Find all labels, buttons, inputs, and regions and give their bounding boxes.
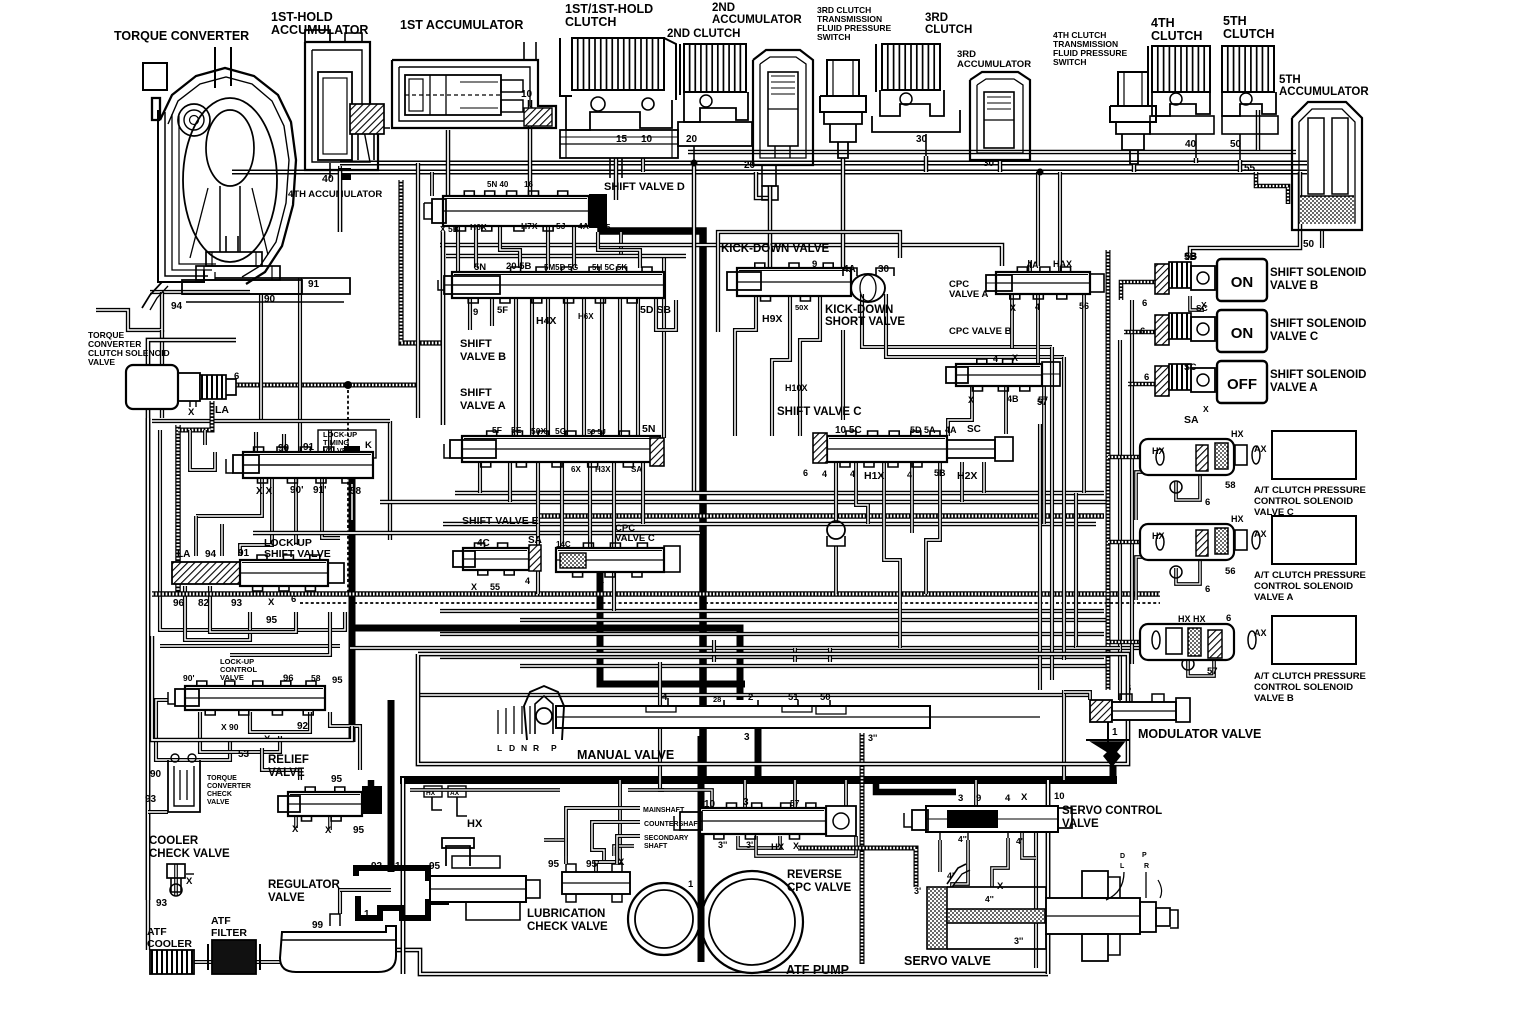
svg-text:L: L xyxy=(1120,863,1125,870)
oil pan strainer xyxy=(280,914,396,972)
svg-text:3: 3 xyxy=(958,793,963,804)
wire 20 drop xyxy=(756,172,778,200)
svg-text:4B: 4B xyxy=(1007,394,1019,404)
svg-text:28: 28 xyxy=(713,695,721,704)
svg-text:H6X: H6X xyxy=(470,222,487,232)
svg-text:2ND: 2ND xyxy=(712,2,735,14)
wire la line xyxy=(175,425,181,592)
svg-text:AX: AX xyxy=(1254,529,1267,539)
svg-text:SHIFT SOLENOID: SHIFT SOLENOID xyxy=(1270,267,1366,279)
wire lockup inner box xyxy=(160,430,352,630)
svg-text:SECONDARY: SECONDARY xyxy=(644,835,689,842)
wire solenoid feeds xyxy=(1121,282,1204,384)
ATF pump xyxy=(628,862,849,977)
svg-text:OFF: OFF xyxy=(1227,376,1257,393)
svg-text:ATF: ATF xyxy=(211,915,231,927)
svg-text:3'': 3'' xyxy=(1014,936,1023,946)
svg-text:30: 30 xyxy=(983,158,995,169)
svg-text:5N 40: 5N 40 xyxy=(487,180,509,189)
svg-text:REVERSE: REVERSE xyxy=(787,869,842,881)
wire verticals 401/418 xyxy=(418,163,432,418)
svg-text:4TH ACCUMULATOR: 4TH ACCUMULATOR xyxy=(288,189,382,200)
wire run 666 xyxy=(520,664,1110,668)
svg-text:1: 1 xyxy=(599,575,604,585)
torque converter check valve xyxy=(145,754,251,812)
svg-text:L: L xyxy=(497,743,502,753)
CPC valve C xyxy=(556,523,680,585)
svg-text:10: 10 xyxy=(521,89,533,100)
svg-text:SERVO VALVE: SERVO VALVE xyxy=(904,954,991,968)
svg-text:2ND CLUTCH: 2ND CLUTCH xyxy=(667,28,740,40)
svg-text:1: 1 xyxy=(688,879,694,890)
svg-text:SHIFT VALVE: SHIFT VALVE xyxy=(264,548,331,560)
svg-text:HX: HX xyxy=(1152,531,1165,541)
svg-text:57: 57 xyxy=(1037,397,1048,408)
wire main line 1 vertical xyxy=(601,210,703,780)
svg-text:20: 20 xyxy=(744,160,756,171)
frame bottom box xyxy=(403,778,1048,974)
shift valve B xyxy=(438,261,671,412)
svg-text:COOLER: COOLER xyxy=(149,835,199,847)
wire lockup shift out xyxy=(160,586,340,655)
svg-text:SWITCH: SWITCH xyxy=(817,32,851,42)
shaft feed lines xyxy=(566,807,703,864)
svg-text:VALVE: VALVE xyxy=(1062,818,1099,830)
svg-text:40: 40 xyxy=(322,173,334,185)
svg-text:5G: 5G xyxy=(555,426,567,436)
svg-text:CONTROL SOLENOID: CONTROL SOLENOID xyxy=(1254,581,1353,592)
shift solenoid valve B xyxy=(1142,251,1366,310)
svg-text:X: X xyxy=(968,395,974,405)
A/T clutch pressure control solenoid valve C xyxy=(1140,429,1366,518)
svg-text:6: 6 xyxy=(1142,298,1147,309)
svg-text:X: X xyxy=(1203,404,1209,414)
svg-text:10: 10 xyxy=(641,134,653,145)
lubrication check valve xyxy=(527,857,630,933)
wire drop 664 xyxy=(621,232,664,438)
svg-text:5D 5A: 5D 5A xyxy=(910,425,936,435)
svg-text:CHECK VALVE: CHECK VALVE xyxy=(527,921,608,933)
svg-text:4'': 4'' xyxy=(985,894,994,904)
svg-text:93: 93 xyxy=(145,794,157,805)
wire thick lockup branch xyxy=(344,446,700,742)
wire run 648 xyxy=(350,646,1160,650)
svg-text:4: 4 xyxy=(822,469,827,479)
wire kickdown verticals xyxy=(735,294,1064,436)
svg-text:HX: HX xyxy=(771,842,785,853)
4th clutch transmission fluid pressure switch xyxy=(1053,30,1156,164)
svg-text:91': 91' xyxy=(313,485,327,496)
svg-text:1: 1 xyxy=(1112,727,1118,738)
svg-text:5F: 5F xyxy=(497,305,508,316)
svg-text:REGULATOR: REGULATOR xyxy=(268,879,340,891)
svg-text:SC: SC xyxy=(1184,362,1197,372)
svg-text:90: 90 xyxy=(264,294,276,305)
svg-text:6: 6 xyxy=(1144,372,1149,383)
svg-text:VALVE B: VALVE B xyxy=(460,351,506,363)
lock-up timing valve xyxy=(226,430,376,497)
svg-text:90': 90' xyxy=(183,673,194,683)
servo control valve xyxy=(904,791,1162,846)
svg-text:5D SB: 5D SB xyxy=(640,304,671,316)
ATF filter xyxy=(208,915,260,974)
svg-text:5J: 5J xyxy=(556,221,566,231)
wire run 502 xyxy=(380,500,1110,505)
wire servo plumb xyxy=(798,780,1036,887)
wire run 524 xyxy=(443,522,1096,527)
svg-text:VALVE A: VALVE A xyxy=(949,289,989,300)
svg-text:4A: 4A xyxy=(578,221,589,231)
svg-text:10: 10 xyxy=(1054,791,1065,802)
svg-text:X: X xyxy=(292,824,299,835)
svg-text:3: 3 xyxy=(743,797,749,808)
torque converter xyxy=(114,29,350,310)
svg-text:CONTROL SOLENOID: CONTROL SOLENOID xyxy=(1254,496,1353,507)
wire hatched 516 xyxy=(540,513,1104,519)
svg-text:50X: 50X xyxy=(795,303,808,312)
svg-text:ATF: ATF xyxy=(147,926,167,938)
wire right bundle xyxy=(1038,172,1132,700)
svg-text:50: 50 xyxy=(1303,239,1315,250)
svg-text:95: 95 xyxy=(266,615,278,626)
wire lockup control plumb xyxy=(156,700,360,770)
shift valve A xyxy=(444,423,664,474)
node 40 / 4th accumulator label xyxy=(288,166,382,200)
svg-text:K: K xyxy=(365,440,372,451)
svg-text:H4X: H4X xyxy=(536,315,556,327)
svg-text:SHIFT: SHIFT xyxy=(460,387,492,399)
svg-text:A/T CLUTCH PRESSURE: A/T CLUTCH PRESSURE xyxy=(1254,485,1366,496)
svg-text:3'': 3'' xyxy=(718,840,727,850)
svg-text:H1X: H1X xyxy=(864,470,884,482)
1st-hold accumulator xyxy=(271,10,390,170)
svg-text:3: 3 xyxy=(744,732,750,743)
svg-text:AX: AX xyxy=(1254,628,1267,638)
svg-text:4: 4 xyxy=(993,354,998,364)
wire thick port2 branch xyxy=(700,628,740,700)
svg-text:6: 6 xyxy=(1140,326,1145,337)
wire 3pp hatched xyxy=(862,733,1036,968)
3rd clutch xyxy=(872,12,972,156)
svg-text:4: 4 xyxy=(662,692,668,703)
svg-text:CLUTCH: CLUTCH xyxy=(1151,29,1202,43)
A/T clutch pressure control solenoid valve A xyxy=(1140,514,1366,603)
svg-text:90': 90' xyxy=(290,485,304,496)
modulator valve xyxy=(1086,694,1261,766)
svg-text:94: 94 xyxy=(171,301,183,312)
shift solenoid valve A xyxy=(1037,361,1366,426)
wire run 493 xyxy=(455,491,1104,496)
svg-text:6: 6 xyxy=(291,594,296,605)
svg-text:96: 96 xyxy=(173,598,185,609)
3rd accumulator xyxy=(957,49,1031,169)
svg-text:1ST-HOLD: 1ST-HOLD xyxy=(271,10,333,24)
svg-text:4: 4 xyxy=(1035,302,1040,312)
svg-text:RELIEF: RELIEF xyxy=(268,754,309,766)
svg-text:VALVE B: VALVE B xyxy=(1270,280,1318,292)
svg-text:X: X xyxy=(268,597,275,608)
svg-text:4: 4 xyxy=(850,469,855,479)
svg-text:VALVE: VALVE xyxy=(268,892,305,904)
wire bus 172 xyxy=(232,170,1307,175)
svg-text:SHIFT VALVE D: SHIFT VALVE D xyxy=(604,181,685,193)
wire bus 152 xyxy=(688,150,1296,155)
svg-text:95': 95' xyxy=(586,859,600,870)
wire drop 4th switch xyxy=(1132,164,1137,172)
svg-text:56: 56 xyxy=(1079,301,1089,311)
lock-up shift valve xyxy=(172,537,344,626)
svg-text:6X: 6X xyxy=(571,465,581,474)
svg-text:16: 16 xyxy=(524,180,533,189)
svg-text:SHIFT: SHIFT xyxy=(460,338,492,350)
svg-text:90: 90 xyxy=(150,769,162,780)
ATF cooler xyxy=(147,926,194,974)
svg-text:KICK-DOWN: KICK-DOWN xyxy=(825,304,893,316)
svg-text:4A: 4A xyxy=(945,425,957,435)
reverse CPC valve xyxy=(674,797,856,894)
svg-text:92: 92 xyxy=(297,721,309,732)
manual valve xyxy=(418,654,1128,764)
wire at cpc feeds xyxy=(1108,457,1214,676)
wire bus 163 xyxy=(340,161,1307,166)
svg-text:VALVE: VALVE xyxy=(88,357,115,367)
svg-text:5TH: 5TH xyxy=(1279,74,1301,86)
svg-text:9: 9 xyxy=(976,793,981,804)
wire thick port1 cpcC xyxy=(600,572,745,684)
svg-text:SHIFT VALVE C: SHIFT VALVE C xyxy=(777,406,862,418)
5th accumulator xyxy=(1184,74,1369,263)
svg-text:99: 99 xyxy=(312,920,324,931)
svg-text:H3X: H3X xyxy=(595,465,611,474)
wire thick regulator xyxy=(388,700,395,872)
svg-text:3RD: 3RD xyxy=(925,12,948,24)
shift valve D xyxy=(424,180,685,234)
svg-text:4TH: 4TH xyxy=(1151,16,1175,30)
svg-text:2: 2 xyxy=(748,692,753,703)
wire run 533 xyxy=(253,531,700,536)
svg-text:4: 4 xyxy=(525,576,530,586)
wire hatched 401 vertical xyxy=(401,180,443,343)
wire relief plumb xyxy=(262,748,358,890)
svg-text:X X: X X xyxy=(256,486,272,497)
svg-text:6: 6 xyxy=(803,468,808,478)
A/T clutch pressure control solenoid valve B xyxy=(1126,613,1366,704)
svg-text:55: 55 xyxy=(1244,163,1256,174)
svg-text:D: D xyxy=(1120,853,1125,860)
svg-text:VALVE A: VALVE A xyxy=(460,400,506,412)
svg-text:94: 94 xyxy=(205,549,217,560)
svg-text:COUNTERSHAFT: COUNTERSHAFT xyxy=(644,821,703,828)
svg-text:4: 4 xyxy=(907,470,912,480)
svg-text:CLUTCH: CLUTCH xyxy=(565,15,616,29)
svg-text:SERVO CONTROL: SERVO CONTROL xyxy=(1062,805,1162,817)
svg-text:VALVE: VALVE xyxy=(268,767,305,779)
svg-text:57: 57 xyxy=(1207,666,1218,677)
svg-text:H6X: H6X xyxy=(578,312,594,321)
svg-text:50: 50 xyxy=(820,692,831,703)
wire thick servo control feed xyxy=(876,780,956,792)
svg-text:6: 6 xyxy=(1205,497,1210,508)
svg-text:95: 95 xyxy=(353,825,365,836)
wire drop 2nd acc xyxy=(768,186,773,272)
svg-text:X: X xyxy=(188,407,195,418)
ball check valve xyxy=(827,521,845,546)
svg-text:SC: SC xyxy=(967,424,981,435)
svg-text:X: X xyxy=(325,825,332,836)
wire center verticals B xyxy=(470,298,676,436)
svg-text:9: 9 xyxy=(473,307,478,318)
lock-up control valve xyxy=(168,657,343,760)
svg-text:82: 82 xyxy=(198,598,210,609)
svg-text:4A: 4A xyxy=(1027,260,1039,270)
svg-text:ATF PUMP: ATF PUMP xyxy=(786,963,849,977)
svg-text:CONVERTER: CONVERTER xyxy=(207,783,251,790)
svg-text:COOLER: COOLER xyxy=(147,938,192,950)
svg-text:30: 30 xyxy=(878,264,890,275)
svg-text:1: 1 xyxy=(700,734,706,745)
svg-text:R: R xyxy=(533,743,539,753)
wire run 634 xyxy=(440,632,1104,636)
wire center verticals A xyxy=(458,226,640,272)
svg-text:91: 91 xyxy=(308,279,320,290)
wire bus 150 right xyxy=(1256,110,1261,150)
wire 55 5th acc xyxy=(1244,163,1288,204)
svg-text:95: 95 xyxy=(332,675,343,686)
svg-text:SC: SC xyxy=(1196,303,1208,313)
svg-text:P: P xyxy=(1142,852,1147,859)
svg-text:6: 6 xyxy=(1205,584,1210,595)
wire thick relief xyxy=(368,780,375,786)
svg-text:CLUTCH: CLUTCH xyxy=(1223,27,1274,41)
svg-text:55: 55 xyxy=(490,582,500,592)
svg-text:6: 6 xyxy=(1226,613,1231,624)
wire cpc verticals xyxy=(948,260,1084,524)
regulator valve xyxy=(268,838,540,920)
svg-text:VALVE C: VALVE C xyxy=(1270,331,1318,343)
svg-text:A/T CLUTCH PRESSURE: A/T CLUTCH PRESSURE xyxy=(1254,570,1366,581)
CPC valve B xyxy=(946,326,1060,405)
svg-text:LUBRICATION: LUBRICATION xyxy=(527,908,605,920)
svg-text:CPC VALVE B: CPC VALVE B xyxy=(949,326,1012,337)
svg-text:95: 95 xyxy=(548,859,560,870)
svg-text:CPC VALVE: CPC VALVE xyxy=(787,882,851,894)
svg-text:95: 95 xyxy=(331,774,343,785)
svg-text:N: N xyxy=(521,743,527,753)
svg-text:ON: ON xyxy=(1231,274,1254,291)
svg-text:3': 3' xyxy=(914,886,921,896)
svg-text:4: 4 xyxy=(1005,793,1011,804)
svg-text:R: R xyxy=(1144,863,1149,870)
svg-text:25: 25 xyxy=(601,222,611,232)
shift valve E xyxy=(453,515,542,592)
wire 50 5th acc down xyxy=(1190,172,1322,260)
svg-text:3': 3' xyxy=(746,840,753,850)
1st/1st-hold clutch xyxy=(560,2,678,178)
svg-text:SHIFT SOLENOID: SHIFT SOLENOID xyxy=(1270,318,1366,330)
wire center verticals C xyxy=(480,462,643,611)
wire main line bottom xyxy=(400,776,1117,784)
svg-text:D: D xyxy=(509,743,515,753)
svg-text:ACCUMULATOR: ACCUMULATOR xyxy=(1279,86,1369,98)
svg-text:40: 40 xyxy=(1185,139,1197,150)
svg-text:53: 53 xyxy=(238,749,250,760)
svg-text:HX HX: HX HX xyxy=(1178,614,1206,624)
wire reverse cpc plumb xyxy=(410,780,856,856)
svg-text:TORQUE CONVERTER: TORQUE CONVERTER xyxy=(114,29,249,43)
svg-text:P: P xyxy=(551,743,557,753)
wire cooler loop xyxy=(148,812,1048,974)
svg-text:KICK-DOWN VALVE: KICK-DOWN VALVE xyxy=(721,243,830,255)
svg-text:9: 9 xyxy=(812,259,817,270)
svg-text:X 90: X 90 xyxy=(221,722,239,732)
svg-text:CONTROL SOLENOID: CONTROL SOLENOID xyxy=(1254,682,1353,693)
wire drop 10 xyxy=(528,100,533,196)
wire lu timing feeds xyxy=(190,430,340,556)
svg-text:VALVE A: VALVE A xyxy=(1270,382,1318,394)
svg-text:SWITCH: SWITCH xyxy=(1053,57,1087,67)
svg-text:91: 91 xyxy=(238,548,250,559)
relief valve xyxy=(268,754,382,836)
svg-text:SA: SA xyxy=(1184,414,1199,426)
svg-text:4': 4' xyxy=(1016,836,1023,846)
torque converter clutch solenoid valve xyxy=(88,330,239,418)
svg-text:HX: HX xyxy=(1152,446,1165,456)
svg-text:X: X xyxy=(793,841,799,851)
svg-text:AX: AX xyxy=(1254,444,1267,454)
svg-text:ACCUMULATOR: ACCUMULATOR xyxy=(957,59,1031,70)
svg-text:5B: 5B xyxy=(1185,251,1197,262)
svg-text:X 5B: X 5B xyxy=(440,224,459,234)
lock-up control valve box xyxy=(152,636,352,740)
frame left border xyxy=(146,418,151,900)
wire drop 5th clutch xyxy=(1238,160,1243,172)
svg-text:ON: ON xyxy=(1231,325,1254,342)
kick-down valve xyxy=(718,232,900,332)
wire LA hatched drop xyxy=(178,401,212,430)
wire drop 4c xyxy=(446,130,451,196)
svg-text:CHECK: CHECK xyxy=(207,791,232,798)
cooler check valve xyxy=(149,835,230,909)
wire drop 1st clutch xyxy=(616,158,643,200)
wire drop 3rd switch xyxy=(841,158,846,268)
svg-text:CHECK VALVE: CHECK VALVE xyxy=(149,848,230,860)
wire thick modulator xyxy=(1108,722,1113,780)
svg-text:X: X xyxy=(471,582,477,592)
wire drop 4th clutch xyxy=(1194,158,1199,163)
svg-text:1ST ACCUMULATOR: 1ST ACCUMULATOR xyxy=(400,18,523,32)
svg-text:X: X xyxy=(186,876,193,887)
shift valve C xyxy=(777,383,1013,482)
svg-text:H2X: H2X xyxy=(957,470,977,482)
wire drop 40 acc xyxy=(329,163,331,178)
wire main line 1 (pump to manual valve) xyxy=(698,736,705,960)
svg-text:58: 58 xyxy=(1225,480,1236,491)
svg-text:SHORT VALVE: SHORT VALVE xyxy=(825,316,905,328)
svg-text:ACCUMULATOR: ACCUMULATOR xyxy=(712,14,802,26)
svg-text:H7X: H7X xyxy=(521,221,538,231)
wire run 620 xyxy=(520,618,1110,622)
svg-text:93: 93 xyxy=(156,898,168,909)
wire run 695 xyxy=(420,693,1090,697)
svg-text:CLUTCH: CLUTCH xyxy=(925,24,972,36)
wire run 657 xyxy=(440,655,1104,659)
wire bus 255 xyxy=(446,254,686,259)
svg-text:H9X: H9X xyxy=(762,313,782,325)
wire dotted 603 xyxy=(300,602,1160,604)
wire right bottom links xyxy=(1064,648,1120,780)
svg-text:HX: HX xyxy=(1231,429,1244,439)
servo valve xyxy=(904,852,1178,968)
